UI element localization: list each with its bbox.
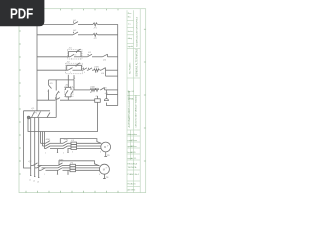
coil lower link xyxy=(106,75,118,77)
branch2 phase wire L3 xyxy=(39,169,41,171)
isolator Q2 contacts xyxy=(33,163,38,166)
switch poles xyxy=(32,112,35,118)
branch1 phase wire L2 xyxy=(43,145,46,147)
svg-text:s/e 1:1: s/e 1:1 xyxy=(131,158,137,160)
zone tick marks xyxy=(19,9,146,193)
dashed box S2 xyxy=(66,63,83,74)
contactor KM3 contacts xyxy=(58,163,63,166)
contact K4 NC xyxy=(101,68,106,71)
contact K2 NC xyxy=(103,54,108,57)
parallel pushbutton box mid xyxy=(67,75,69,88)
sheet frame border xyxy=(19,9,146,193)
svg-text:TEMA:: TEMA: xyxy=(128,98,135,101)
svg-text:aprob: aprob xyxy=(128,46,134,48)
svg-text:U: U xyxy=(100,152,101,154)
wire rung6 xyxy=(74,89,90,91)
svg-text:L2: L2 xyxy=(33,181,35,183)
svg-text:10-05: 10-05 xyxy=(131,152,136,154)
svg-text:HOJA 1/1: HOJA 1/1 xyxy=(128,183,136,186)
svg-text:No. PLANO:: No. PLANO: xyxy=(129,62,132,74)
svg-text:L1: L1 xyxy=(29,180,31,182)
wire number specks xyxy=(44,55,109,177)
bypass loop branch2 xyxy=(59,161,99,166)
contact K1 NO xyxy=(88,54,93,57)
svg-text:nombre: nombre xyxy=(131,133,137,136)
schematic xyxy=(24,21,118,178)
overload relay F4 xyxy=(70,164,76,166)
svg-text:J.Perez: J.Perez xyxy=(131,139,137,142)
svg-text:dibuj: dibuj xyxy=(128,38,133,40)
drop wire with contact xyxy=(48,80,50,85)
contact F2 rung2 xyxy=(73,32,78,35)
lamp H2 xyxy=(93,33,97,36)
svg-text:13: 13 xyxy=(47,91,49,93)
svg-text:L3: L3 xyxy=(37,182,39,184)
buzzer H3 xyxy=(104,99,108,101)
wire rung5 xyxy=(49,79,75,81)
dashed linkage boxes xyxy=(65,50,83,97)
motor M2 xyxy=(99,164,109,174)
coil KM2 xyxy=(90,89,99,92)
pushbutton S1 parallel branch xyxy=(69,52,82,57)
wire rung2 xyxy=(37,34,73,36)
svg-text:BOMBAS ALTERNADAS: BOMBAS ALTERNADAS xyxy=(135,48,138,76)
terminal stubs branch1 xyxy=(57,149,59,153)
linkage stub xyxy=(73,75,75,79)
buzzer vertical xyxy=(105,90,107,99)
long left wire xyxy=(24,111,31,168)
PDF badge xyxy=(0,0,44,26)
device box T1 xyxy=(95,99,101,103)
control bus right N xyxy=(117,24,119,105)
svg-text:U: U xyxy=(99,174,100,176)
svg-text:3~: 3~ xyxy=(106,168,108,170)
title block column lines xyxy=(127,9,140,193)
component labels xyxy=(28,20,110,184)
contactor KM1 contacts xyxy=(46,141,51,144)
svg-text:CIRCUITO DE FUERZA Y MANDO: CIRCUITO DE FUERZA Y MANDO xyxy=(135,95,138,128)
motor M1 xyxy=(101,142,111,152)
svg-text:PDF: PDF xyxy=(10,5,33,22)
dashed box S4 xyxy=(65,86,73,96)
svg-text:Rev: Rev xyxy=(128,13,132,15)
contact K6 NC xyxy=(101,88,105,90)
dashed box S1 xyxy=(68,50,83,60)
wire rung3 xyxy=(37,56,70,58)
svg-text:No.: No. xyxy=(128,17,132,19)
supply vertical L3 xyxy=(38,118,40,171)
pushbutton S2 parallel branch xyxy=(67,65,82,70)
branch1 phase wire L3 xyxy=(45,148,46,150)
control supply line A xyxy=(24,110,51,112)
contact K3 xyxy=(83,68,87,70)
svg-text:TECNICA: TECNICA xyxy=(128,166,137,169)
branch1 phase wire L1 xyxy=(41,142,46,144)
svg-text:PLANO No 1: PLANO No 1 xyxy=(128,173,140,176)
svg-text:13: 13 xyxy=(75,55,77,57)
svg-text:A4 ORIG: A4 ORIG xyxy=(128,189,136,192)
svg-text:AUTOMATISMOS ELECTRICOS: AUTOMATISMOS ELECTRICOS xyxy=(128,90,131,127)
control supply line B with fuse circle xyxy=(27,116,30,119)
title block text xyxy=(128,13,140,192)
wire rung1 xyxy=(37,23,73,25)
svg-text:M: M xyxy=(104,145,106,149)
svg-text:MODIFICACION SUSTITUYE A: MODIFICACION SUSTITUYE A xyxy=(135,16,138,46)
supply terminal stubs xyxy=(30,166,32,176)
vertical with contact S3 xyxy=(55,80,57,91)
contactor KM2 contacts xyxy=(63,141,68,144)
svg-text:No. 04: No. 04 xyxy=(128,91,135,93)
wire link to bus xyxy=(106,94,117,96)
supply vertical L1 xyxy=(30,118,32,166)
branch2 phase wire L1 xyxy=(31,165,33,167)
coil KM1 xyxy=(94,69,100,72)
svg-text:3~: 3~ xyxy=(107,146,109,148)
overload relay F3 xyxy=(71,142,77,144)
wire rung4 xyxy=(37,69,68,71)
svg-text:ESCUELA: ESCUELA xyxy=(128,163,138,166)
contact K5 xyxy=(55,98,60,101)
branch1 feeder drops xyxy=(40,132,42,144)
svg-text:95: 95 xyxy=(105,88,107,90)
svg-text:fecha: fecha xyxy=(128,31,134,33)
wire buzzer to bus xyxy=(106,105,117,107)
svg-text:M.Diaz: M.Diaz xyxy=(131,146,137,148)
lamp H1 xyxy=(93,23,97,26)
big loop wire xyxy=(28,102,98,131)
control bus left L xyxy=(36,24,38,110)
contact F1 rung1 xyxy=(73,22,78,25)
branch2 phase wire L2 xyxy=(35,167,37,169)
terminal stubs branch2 xyxy=(57,170,59,174)
bypass loop branch1 xyxy=(60,139,101,144)
supply vertical L2 xyxy=(34,118,36,168)
wire mid horizontal xyxy=(37,99,55,101)
svg-text:14: 14 xyxy=(74,78,76,80)
svg-text:21: 21 xyxy=(58,99,60,101)
